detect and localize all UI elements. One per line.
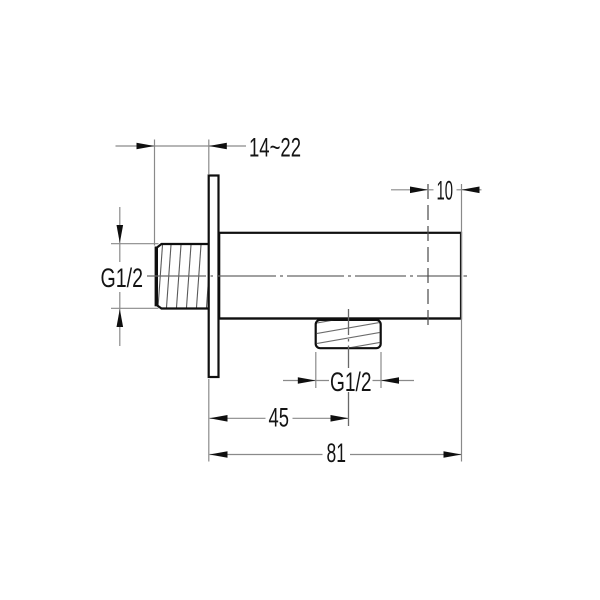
thread hatch line 5 xyxy=(197,245,202,308)
dimension line bottom G1/2 xyxy=(283,380,414,382)
arrow 81 left xyxy=(210,451,228,458)
extension line: body right end for 10/81 xyxy=(461,184,463,462)
arrow 14~22 right xyxy=(209,143,227,150)
body bottom edge over outlet xyxy=(219,317,461,319)
outlet hatch line 4 xyxy=(314,342,383,354)
arrow 81 right xyxy=(444,451,462,458)
dimension line left G1/2 (vertical) xyxy=(119,207,121,346)
horizontal centerline xyxy=(147,275,467,277)
arrow 45 right xyxy=(331,415,349,422)
arrow 45 left xyxy=(210,415,228,422)
outlet hatch line 1 xyxy=(314,311,383,323)
thread left face thick line xyxy=(155,247,158,307)
arrow left G1/2 bottom xyxy=(117,309,124,327)
dimension line 81 xyxy=(210,454,462,456)
thread hatch line 1 xyxy=(158,245,163,308)
svg-text:G1/2: G1/2 xyxy=(330,367,372,397)
extension line: 14~22 right (flange face) xyxy=(208,140,210,175)
svg-text:14~22: 14~22 xyxy=(249,133,301,163)
extension line: thread top for G1/2 xyxy=(111,243,159,245)
dimension line 45 xyxy=(210,417,349,419)
arrow 10 right xyxy=(462,187,480,194)
main body xyxy=(219,233,461,319)
extension line: outlet left for bottom G1/2 xyxy=(315,352,317,388)
flange (wall plate) xyxy=(209,176,219,378)
extension line: thread bottom for G1/2 xyxy=(111,307,159,309)
vertical centerline of outlet xyxy=(348,309,350,426)
thread hatch line 2 xyxy=(167,245,172,308)
svg-text:G1/2: G1/2 xyxy=(101,263,144,293)
dimension line 14~22 xyxy=(116,145,247,147)
hidden depth dashed line xyxy=(427,184,429,325)
extension line: 14~22 left (wall face) xyxy=(154,140,156,246)
thread hatch line 6 xyxy=(207,245,212,308)
arrow 14~22 left xyxy=(137,143,155,150)
thread outline xyxy=(156,244,208,309)
arrow 10 left xyxy=(410,187,428,194)
extension line: outlet right for bottom G1/2 xyxy=(380,352,382,388)
svg-text:10: 10 xyxy=(437,176,454,206)
extension line: flange face down for 45/81 xyxy=(208,379,210,462)
outlet hatch line 3 xyxy=(314,332,383,344)
thread hatch line 4 xyxy=(187,245,192,308)
bottom outlet G1/2 nipple xyxy=(314,311,383,354)
wall thread inlet G1/2 body outline xyxy=(158,245,211,308)
arrow bottom G1/2 right xyxy=(381,377,399,384)
thread hatch line 3 xyxy=(177,245,182,308)
outlet hatch line 2 xyxy=(314,322,383,334)
dimension line 10 xyxy=(391,189,482,191)
arrow bottom G1/2 left xyxy=(298,377,316,384)
arrow left G1/2 top xyxy=(117,225,124,243)
svg-text:45: 45 xyxy=(269,403,290,433)
svg-text:81: 81 xyxy=(327,438,347,468)
